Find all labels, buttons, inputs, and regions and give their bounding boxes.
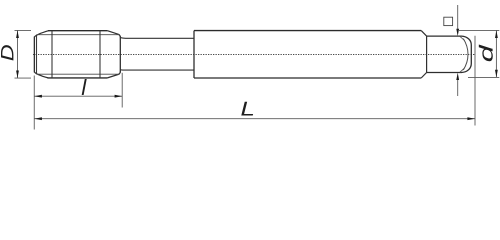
thread head crest bottom line bbox=[48, 77, 108, 79]
label d bbox=[479, 45, 493, 62]
square leader bottom line bbox=[457, 79, 459, 96]
thread chamfer tangent vertical right bbox=[99, 31, 101, 78]
thread root top line bbox=[37, 34, 120, 36]
dimension D arrow up bbox=[16, 30, 19, 38]
thread head top-left bevel bbox=[34, 31, 48, 37]
dimension L arrow right bbox=[467, 117, 475, 120]
thread head right end face bbox=[119, 36, 121, 72]
dimension d extension top bbox=[458, 29, 499, 31]
square drive end corner edge top bbox=[460, 36, 465, 40]
dimension L right extension bbox=[474, 36, 476, 126]
thread head crest top line bbox=[48, 30, 107, 32]
square symbol bbox=[444, 17, 453, 25]
label D bbox=[1, 45, 13, 60]
square drive outline with domed end bbox=[427, 36, 472, 72]
shank-to-square top chamfer bbox=[421, 31, 426, 36]
label L bbox=[241, 102, 253, 116]
dimension l right extension bbox=[121, 73, 123, 108]
dimension d line bbox=[495, 30, 497, 77]
thread head bottom-right bevel bbox=[107, 72, 120, 78]
dimension d arrow down bbox=[495, 70, 498, 78]
dimension L arrow left bbox=[34, 117, 42, 120]
dimension D line bbox=[17, 30, 19, 78]
square drive end chamfer arc bbox=[463, 39, 468, 70]
shank-to-square bottom chamfer bbox=[421, 73, 426, 79]
dimension l arrow right bbox=[115, 95, 123, 98]
square drive left face bbox=[426, 36, 428, 72]
neck bottom line bbox=[120, 69, 194, 71]
centerline bbox=[33, 54, 475, 56]
square leader arrow down bbox=[456, 29, 459, 36]
dimension l arrow left bbox=[34, 95, 42, 98]
dimension d extension bottom bbox=[468, 76, 499, 78]
square drive end corner edge bottom bbox=[460, 68, 465, 72]
shank bottom line bbox=[194, 77, 421, 79]
square leader arrow up bbox=[456, 73, 459, 80]
thread head bottom-left bevel bbox=[34, 72, 48, 78]
dimension D extension line bottom bbox=[15, 77, 32, 79]
dimension d arrow up bbox=[495, 30, 498, 38]
neck top line bbox=[120, 37, 194, 40]
thread head left root-end vertical bbox=[36, 35, 38, 74]
dimension l line bbox=[34, 95, 122, 97]
thread head left end face bbox=[33, 37, 35, 73]
dimension l left extension (shared with L) bbox=[33, 76, 35, 130]
dimension D arrow down bbox=[16, 71, 19, 79]
dimension D extension line top bbox=[15, 29, 32, 31]
square leader top line bbox=[457, 5, 459, 30]
shank left edge bbox=[193, 31, 195, 78]
label l bbox=[82, 79, 87, 95]
dimension L line bbox=[34, 118, 475, 120]
thread head top-right bevel bbox=[107, 31, 120, 38]
thread root bottom line bbox=[37, 73, 120, 75]
shank top line bbox=[194, 30, 421, 32]
thread chamfer tangent vertical left bbox=[51, 31, 53, 78]
